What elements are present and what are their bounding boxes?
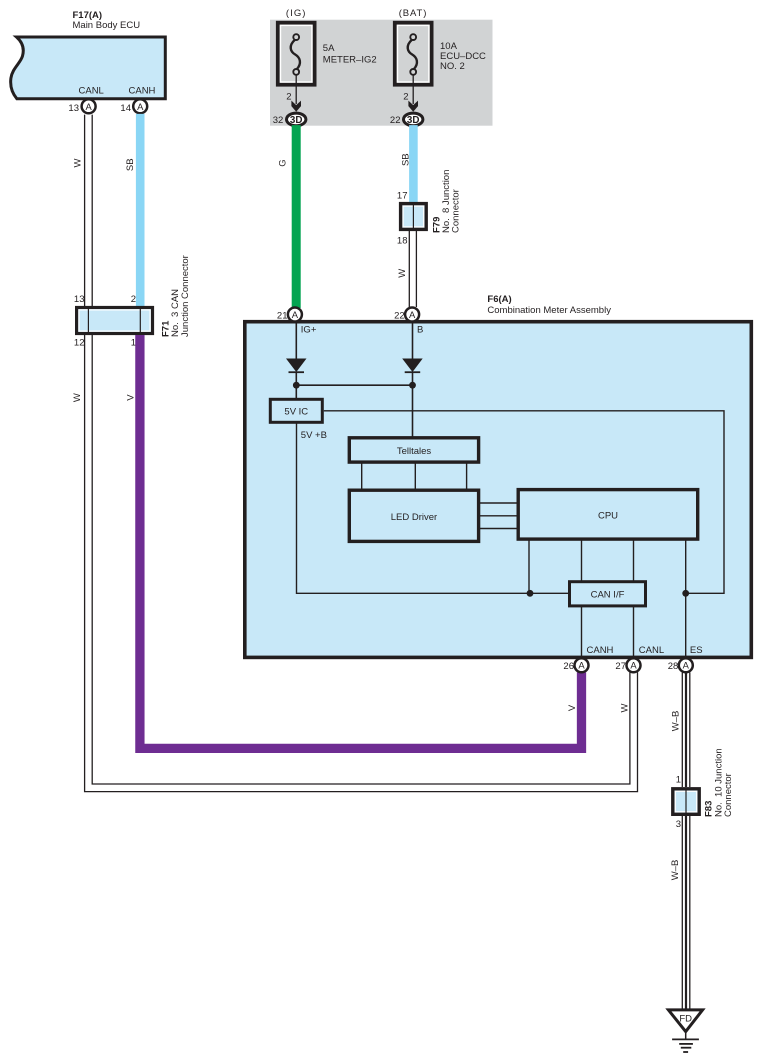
wire SB from pin 14 to F71 pin 2 (136, 114, 145, 307)
svg-text:W–B: W–B (670, 860, 681, 881)
fuse 5A METER-IG2 (278, 23, 315, 85)
power source gray band (270, 20, 493, 126)
svg-text:3: 3 (676, 819, 681, 830)
svg-text:28: 28 (668, 661, 679, 672)
fuse 10A ECU-DCC NO. 2 (395, 23, 432, 85)
svg-text:CANL: CANL (79, 86, 104, 97)
svg-text:B: B (417, 325, 423, 336)
diode D2 (403, 359, 422, 371)
CAN I/F box (570, 582, 646, 606)
svg-text:IG+: IG+ (301, 325, 317, 336)
svg-text:2: 2 (131, 294, 136, 305)
svg-text:A: A (578, 660, 585, 671)
svg-text:A: A (292, 309, 299, 320)
svg-text:2: 2 (286, 92, 291, 103)
svg-text:13: 13 (68, 103, 79, 114)
svg-text:27: 27 (615, 661, 626, 672)
wire V from F71 pin 1 down-around to pin 26 CANH (purple) (140, 335, 582, 748)
svg-text:SB: SB (125, 158, 136, 171)
wire W from pin 13 to F71 pin 13 (double line) (84, 115, 86, 307)
svg-text:A: A (409, 309, 416, 320)
svg-text:Telltales: Telltales (397, 446, 432, 457)
junction dot (682, 590, 689, 597)
wires Telltales to LED Driver (361, 463, 363, 489)
wire W-B from pin 28 to F83 pin 1 (triple line) (681, 672, 683, 787)
svg-text:26: 26 (563, 661, 574, 672)
svg-text:18: 18 (397, 236, 408, 247)
svg-text:CPU: CPU (598, 510, 618, 521)
ground symbol (685, 1033, 687, 1039)
svg-text:METER–IG2: METER–IG2 (323, 55, 377, 66)
svg-text:5V IC: 5V IC (284, 406, 308, 417)
wire joining diode outputs (296, 384, 412, 386)
svg-text:Combination Meter Assembly: Combination Meter Assembly (487, 305, 611, 316)
svg-text:3D: 3D (407, 115, 420, 126)
ground point FD triangle (668, 1010, 702, 1032)
svg-text:A: A (137, 101, 144, 112)
svg-text:A: A (683, 660, 690, 671)
LED Driver box (349, 490, 478, 541)
svg-text:CANL: CANL (639, 645, 664, 656)
svg-text:1: 1 (131, 338, 136, 349)
wire G from fuse IG to pin 21 (292, 125, 301, 308)
node ES wire CPU to pin 28 (685, 540, 687, 659)
wire from 5V IC bottom down and right to CAN I/F (297, 422, 569, 593)
svg-text:21: 21 (277, 311, 288, 322)
svg-text:Connector: Connector (451, 189, 462, 233)
svg-text:W–B: W–B (671, 711, 682, 732)
svg-text:1: 1 (676, 775, 681, 786)
svg-text:17: 17 (397, 191, 408, 202)
svg-text:5A: 5A (323, 43, 335, 54)
svg-text:FD: FD (679, 1014, 692, 1025)
wire W from F79 pin 18 to pin 22 (double line) (408, 231, 410, 307)
svg-text:G: G (278, 159, 289, 166)
svg-text:W: W (72, 393, 83, 402)
Telltales box (349, 438, 478, 462)
svg-text:32: 32 (273, 115, 284, 126)
svg-text:A: A (85, 101, 92, 112)
svg-text:5V +B: 5V +B (301, 430, 327, 441)
svg-text:Connector: Connector (723, 773, 734, 817)
diode D1 (287, 359, 306, 371)
connector F17(A) Main Body ECU (11, 37, 166, 99)
svg-text:22: 22 (394, 311, 405, 322)
svg-text:W: W (620, 703, 631, 712)
svg-text:(BAT): (BAT) (399, 8, 428, 19)
svg-text:14: 14 (120, 103, 131, 114)
CPU box (518, 490, 698, 539)
svg-text:CAN I/F: CAN I/F (591, 590, 625, 601)
svg-text:LED Driver: LED Driver (391, 512, 437, 523)
fuse output line and pin 2 (412, 75, 414, 104)
svg-text:2: 2 (403, 92, 408, 103)
svg-text:(IG): (IG) (286, 8, 307, 19)
junction dot (293, 382, 300, 389)
svg-text:V: V (126, 394, 137, 401)
svg-text:3D: 3D (290, 115, 303, 126)
arrow into 3D (408, 101, 418, 112)
svg-text:NO. 2: NO. 2 (440, 61, 465, 72)
wire SB from fuse BAT to F79 pin 17 (409, 125, 418, 202)
arrow into 3D (291, 101, 301, 112)
5V IC box (270, 399, 322, 422)
node B line (412, 324, 414, 360)
svg-text:ES: ES (690, 645, 703, 656)
junction dot (409, 382, 416, 389)
CPU output wires (528, 540, 530, 594)
svg-text:F6(A): F6(A) (487, 294, 511, 305)
svg-text:Main Body ECU: Main Body ECU (73, 20, 141, 31)
svg-text:W: W (73, 158, 84, 167)
svg-text:SB: SB (401, 153, 412, 166)
svg-text:CANH: CANH (129, 86, 156, 97)
svg-text:V: V (567, 704, 578, 711)
svg-text:12: 12 (74, 338, 85, 349)
wire W-B from F83 pin 3 to ground (triple line) (681, 816, 683, 1010)
svg-text:CANH: CANH (587, 645, 614, 656)
svg-text:13: 13 (74, 294, 85, 305)
junction dot (527, 590, 534, 597)
wire W from F71 pin 12 down-around to pin 27 CANL (double line) (92, 335, 630, 784)
fuse output line and pin 2 (295, 75, 297, 104)
node IG+ line (295, 324, 297, 360)
svg-text:W: W (397, 269, 408, 278)
wires CAN I/F to pins (581, 606, 583, 658)
bus wires LED Driver to CPU (480, 502, 517, 504)
combination meter assembly box F6(A) (245, 322, 752, 658)
svg-text:A: A (630, 660, 637, 671)
svg-text:Junction Connector: Junction Connector (180, 255, 191, 337)
wire from 5V IC right to right side down to ES node (324, 411, 724, 594)
svg-text:22: 22 (390, 115, 401, 126)
